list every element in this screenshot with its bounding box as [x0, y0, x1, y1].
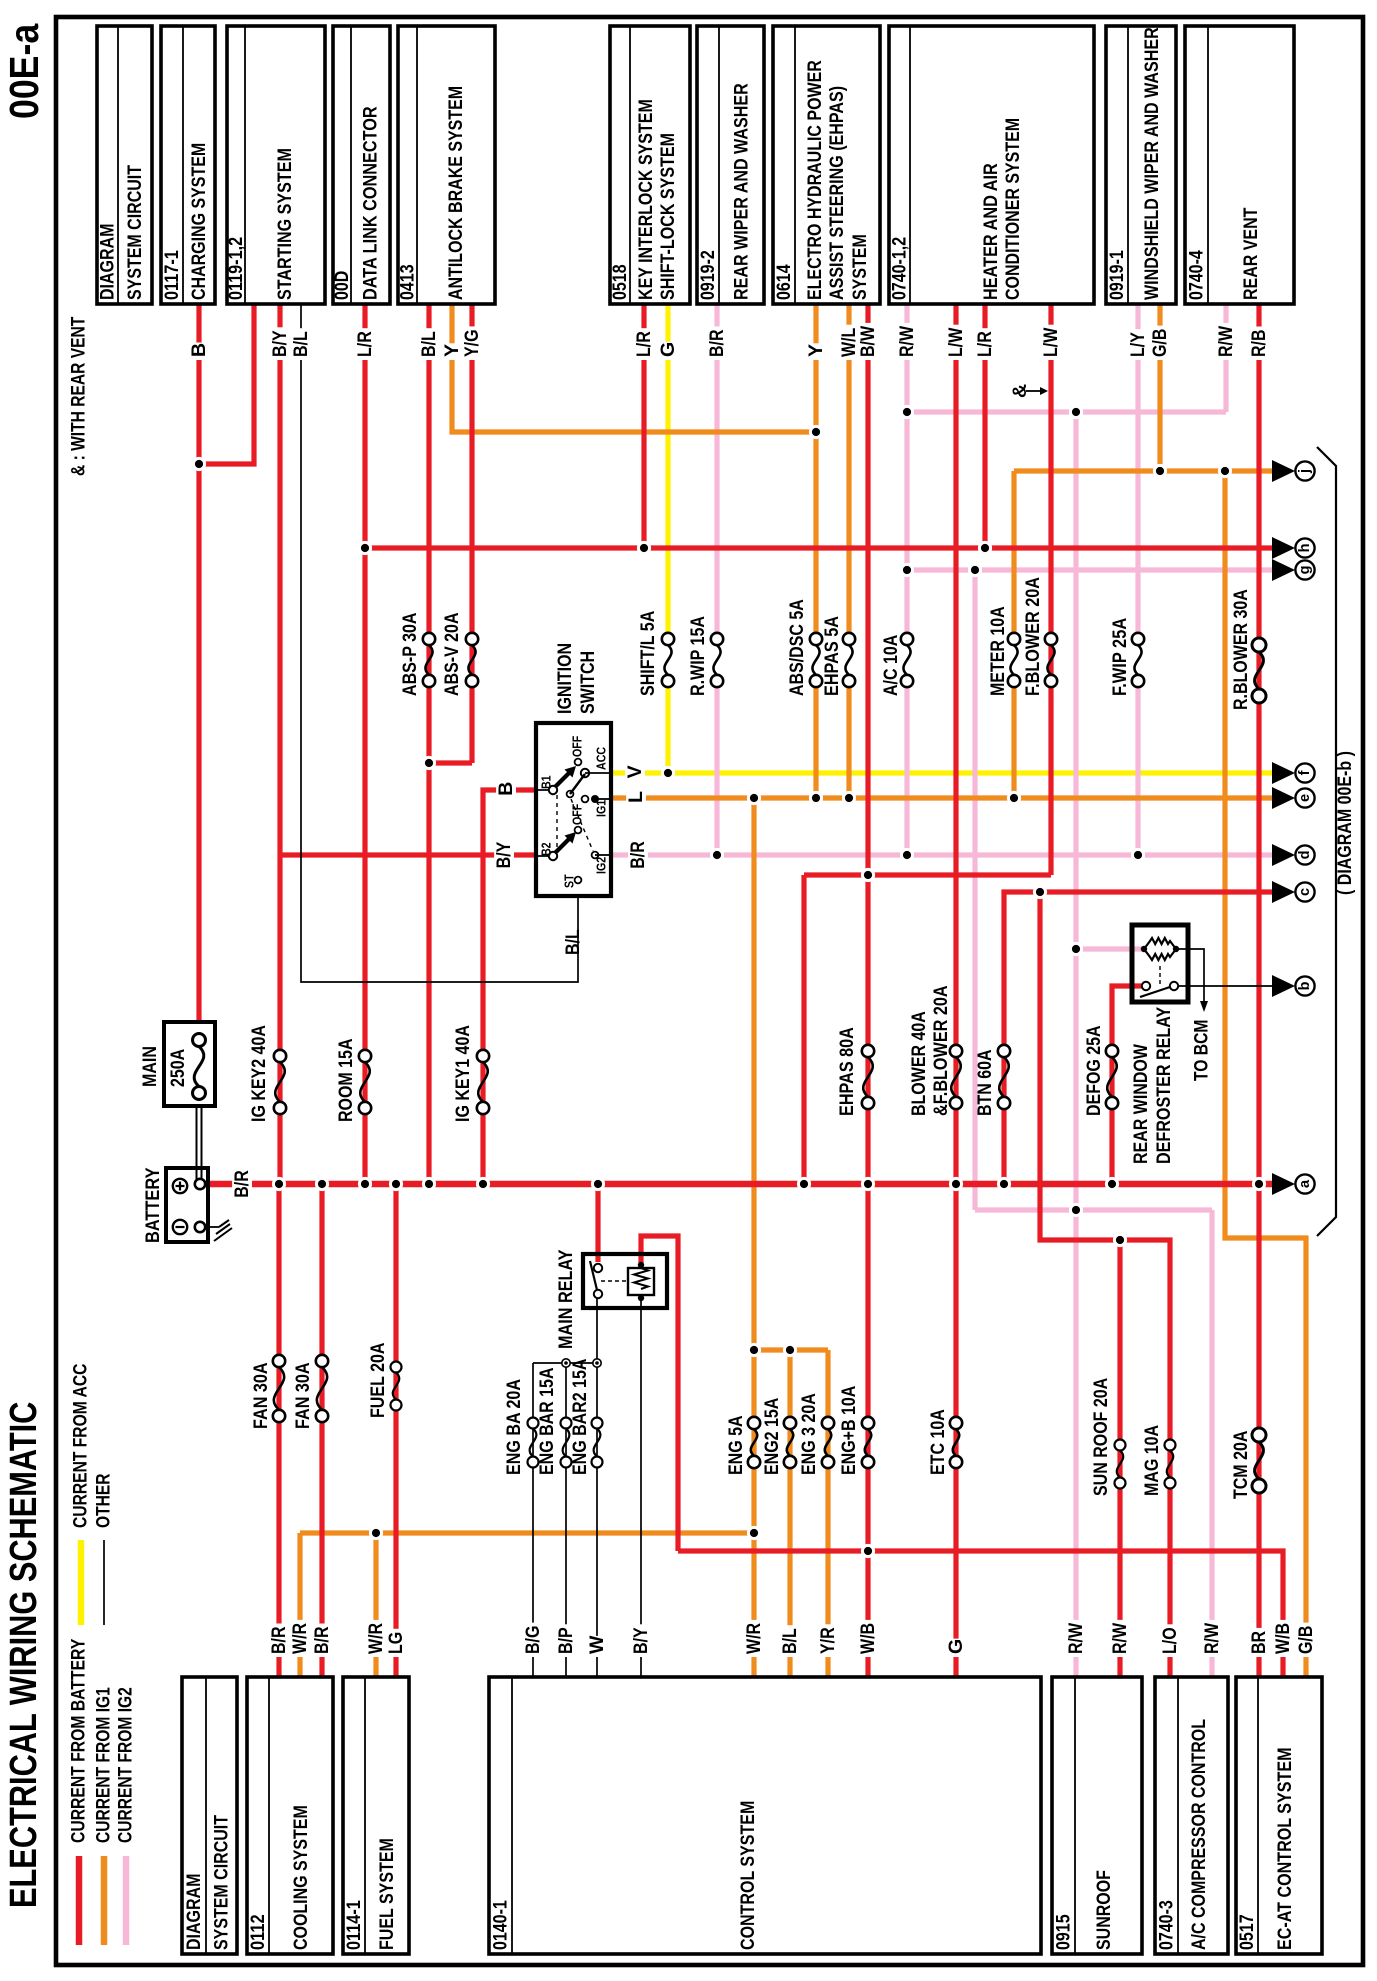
wire L/Y pink from 0919-1: [1135, 304, 1140, 633]
svg-text:ENG BAR 15A: ENG BAR 15A: [536, 1368, 558, 1476]
wire main red h-line to arrow h: [365, 545, 1272, 550]
svg-text:0614: 0614: [773, 264, 795, 300]
connector arrow a: [1272, 1173, 1295, 1195]
svg-text:CHARGING SYSTEM: CHARGING SYSTEM: [188, 143, 210, 300]
svg-text:SYSTEM: SYSTEM: [849, 234, 871, 300]
junction bus at ABS: [422, 1177, 436, 1191]
label wire B/Y relay: [631, 1624, 652, 1657]
svg-text:g: g: [1297, 566, 1313, 575]
svg-text:A/C COMPRESSOR CONTROL: A/C COMPRESSOR CONTROL: [1188, 1719, 1210, 1950]
label wire R/W sunroof red: [1110, 1620, 1131, 1657]
wire TCM fuse lead to EC-AT: [1256, 1184, 1261, 1677]
fuse ETC 10A: [950, 1417, 962, 1429]
svg-text:FUEL SYSTEM: FUEL SYSTEM: [376, 1838, 398, 1950]
wire B/R pink from 0919-2: [714, 304, 719, 633]
label wire W: [587, 1636, 608, 1657]
svg-text:Y: Y: [805, 344, 827, 357]
fuse ENG BA 20A: [528, 1418, 539, 1429]
battery minus terminal: [195, 1222, 205, 1232]
svg-text:W/R: W/R: [289, 1623, 311, 1654]
label wire L/R 0518: [634, 328, 655, 360]
label wire W/B: [858, 1620, 879, 1657]
wire Y orange from 0413: [452, 304, 816, 432]
wire pink net at y412: [907, 409, 1226, 414]
junction bus at L/R ROOM: [358, 1177, 372, 1191]
svg-text:IG1: IG1: [594, 800, 609, 817]
svg-text:B2: B2: [539, 842, 554, 856]
wire Y orange below ABS/DSC fuse: [813, 687, 818, 798]
label wire G/B: [1150, 326, 1171, 360]
svg-text:0919-2: 0919-2: [697, 250, 719, 300]
svg-text:G/B: G/B: [1295, 1626, 1317, 1654]
fuse ABS-V 20A: [466, 633, 478, 645]
wire B/R pink below R.WIP fuse: [714, 687, 719, 855]
junction W/R fuel branch: [369, 1526, 383, 1540]
svg-text:ELECTRICAL WIRING SCHEMATIC: ELECTRICAL WIRING SCHEMATIC: [3, 1402, 45, 1908]
wire B/R IG2 line to arrow d: [611, 852, 1272, 857]
svg-text:0114-1: 0114-1: [343, 1900, 365, 1950]
svg-text:EHPAS 5A: EHPAS 5A: [821, 616, 843, 696]
arrowhead TO BCM: [1200, 1001, 1208, 1012]
wire L/W blower feed from 0740-1,2: [953, 304, 958, 1184]
svg-text:L/Y: L/Y: [1127, 332, 1149, 357]
svg-text:b: b: [1297, 981, 1313, 990]
system box 0740-4 REAR VENT: [1185, 26, 1294, 304]
wire IG KEY1 feed to ignition switch B1: [483, 790, 536, 1184]
svg-text:EC-AT CONTROL SYSTEM: EC-AT CONTROL SYSTEM: [1274, 1748, 1296, 1951]
svg-text:FUEL 20A: FUEL 20A: [367, 1343, 389, 1419]
ignition switch B1 contact: [549, 786, 557, 794]
wire R/W pink from 0740-4: [1223, 304, 1228, 412]
wire METER feed orange: [1011, 471, 1016, 633]
svg-text:CONTROL SYSTEM: CONTROL SYSTEM: [737, 1801, 759, 1950]
fuse FAN 30A no1: [273, 1355, 285, 1367]
fuse ENG+B 10A: [862, 1417, 874, 1429]
wire Y orange from 0614: [813, 304, 818, 633]
system box 0915 SUNROOF: [1052, 1677, 1142, 1954]
system box 0112 COOLING SYSTEM: [247, 1677, 333, 1954]
wire ABS join y763: [429, 760, 472, 765]
svg-text:B/Y: B/Y: [269, 330, 291, 357]
wire defroster coil TO BCM: [1176, 949, 1204, 1003]
svg-text:STARTING SYSTEM: STARTING SYSTEM: [274, 148, 296, 300]
svg-text:SHIFT/L 5A: SHIFT/L 5A: [637, 611, 659, 696]
label wire B/Y ignition: [494, 839, 514, 872]
junction engine bar at W: [593, 1359, 601, 1367]
label wire W/L: [839, 325, 860, 360]
legend swatch ACC yellow: [78, 1540, 85, 1625]
svg-text:Y: Y: [441, 344, 463, 357]
svg-text:TCM 20A: TCM 20A: [1230, 1431, 1252, 1499]
legend swatch battery red: [76, 1856, 83, 1945]
svg-text:DATA LINK CONNECTOR: DATA LINK CONNECTOR: [360, 106, 382, 300]
svg-text:( DIAGRAM 00E-b ): ( DIAGRAM 00E-b ): [1334, 751, 1356, 895]
svg-text:B: B: [495, 782, 517, 796]
ignition switch IG1 contact: [582, 796, 589, 803]
connector arrow b: [1272, 975, 1295, 997]
fuse IG KEY2 40A: [274, 1050, 286, 1062]
system box 0413 ANTILOCK BRAKE SYSTEM: [398, 26, 495, 304]
wire R/W pink sunroof feed: [1073, 412, 1078, 1677]
junction pink y412 at sunroof drop: [1069, 405, 1083, 419]
label wire L/R: [355, 328, 376, 360]
label wire W/R control: [744, 1620, 765, 1657]
battery: [166, 1168, 208, 1242]
junction h-line at L/R 0518: [637, 541, 651, 555]
svg-text:OTHER: OTHER: [94, 1473, 115, 1528]
junction h-line at L/R 00D: [358, 541, 372, 555]
fuse TCM 20A: [1252, 1428, 1266, 1442]
svg-text:R.WIP 15A: R.WIP 15A: [687, 616, 709, 696]
svg-text:OFF: OFF: [570, 804, 585, 825]
svg-text:SUN ROOF 20A: SUN ROOF 20A: [1090, 1378, 1112, 1496]
wire METER fuse lower lead: [1011, 687, 1016, 798]
system box 0614 EHPAS: [773, 26, 880, 304]
wire main relay coil feed: [641, 1236, 678, 1551]
junction L at ABS/DSC: [809, 791, 823, 805]
svg-text:ANTILOCK BRAKE SYSTEM: ANTILOCK BRAKE SYSTEM: [445, 86, 467, 300]
ignition switch ST contact: [575, 877, 582, 884]
svg-text:0112: 0112: [247, 1914, 269, 1950]
svg-text:ENG BAR2 15A: ENG BAR2 15A: [569, 1359, 591, 1475]
svg-text:R/W: R/W: [1065, 1622, 1087, 1654]
wire DEFOG feed to defroster relay: [1112, 986, 1142, 1184]
wire W/R orange into control box: [751, 1533, 756, 1677]
wire bus drop x804: [801, 875, 806, 1184]
svg-text:SYSTEM CIRCUIT: SYSTEM CIRCUIT: [124, 165, 146, 300]
svg-text:ACC: ACC: [594, 746, 609, 770]
label wire B/Y: [270, 327, 291, 360]
fuse DEFOG 25A: [1106, 1045, 1118, 1057]
connector arrow f: [1272, 762, 1295, 784]
svg-text:ST: ST: [562, 874, 577, 888]
main relay dashed link: [601, 1280, 626, 1282]
svg-text:SWITCH: SWITCH: [577, 651, 599, 714]
junction L at EHPAS 5A: [842, 791, 856, 805]
wire Y/G from 0413 through ABS-V fuse: [469, 304, 474, 763]
system box 00D DATA LINK CONNECTOR: [333, 26, 390, 304]
svg-text:IG2: IG2: [594, 857, 609, 874]
svg-text:0119-1,2: 0119-1,2: [225, 237, 247, 300]
svg-text:d: d: [1297, 851, 1313, 860]
fuse SUN ROOF 20A: [1115, 1440, 1126, 1451]
svg-text:MAG 10A: MAG 10A: [1141, 1425, 1163, 1496]
wire orange IG1 drop to engine fuses: [751, 798, 756, 1533]
svg-text:0517: 0517: [1236, 1914, 1258, 1950]
wire SUN ROOF fuse lead: [1117, 1240, 1122, 1677]
label wire G control: [946, 1639, 967, 1657]
junction B charging/starting: [192, 457, 206, 471]
wire L/Y pink below F.WIP fuse: [1135, 687, 1140, 855]
label wire W/R fuel: [366, 1620, 387, 1657]
wire ETC feed G: [953, 1184, 958, 1677]
svg-text:DEFROSTER RELAY: DEFROSTER RELAY: [1153, 1007, 1175, 1164]
label wire B/W: [858, 323, 879, 360]
ignition switch link mid-ACC: [570, 774, 585, 794]
svg-text:R/W: R/W: [1215, 325, 1237, 357]
svg-text:R/W: R/W: [1109, 1622, 1131, 1654]
wire R/W pink into A/C compressor box: [1209, 1210, 1214, 1677]
junction bus at x804: [797, 1177, 811, 1191]
junction bus at main relay: [591, 1177, 605, 1191]
label wire B/R bus: [232, 1167, 252, 1201]
junction bus at FUEL: [389, 1177, 403, 1191]
wire ENG BAR 15A lead B/P: [565, 1363, 567, 1677]
svg-text:0117-1: 0117-1: [161, 250, 183, 300]
svg-text:EHPAS 80A: EHPAS 80A: [836, 1027, 858, 1116]
svg-text:G/B: G/B: [1149, 329, 1171, 357]
wire L/R from 0518: [641, 304, 646, 548]
fuse A/C 10A: [901, 633, 913, 645]
svg-text:B: B: [188, 343, 210, 357]
wire pink drop to A/C compressor: [972, 570, 977, 1210]
fuse EHPAS 5A: [843, 633, 855, 645]
ignition switch OFF2 position: [575, 827, 582, 834]
defroster relay dashed link: [1159, 966, 1161, 984]
svg-text:B/P: B/P: [555, 1627, 577, 1654]
junction ABS lines join: [422, 756, 436, 770]
label wire L/R 0740: [975, 328, 996, 360]
wire L IG1 line to arrow e: [611, 795, 1272, 800]
connector arrow e: [1272, 787, 1295, 809]
wire c-line drop to sunroof/mag fuses: [1040, 892, 1170, 1677]
rear window defroster relay box: [1132, 925, 1188, 1002]
main relay switch contacts: [594, 1264, 602, 1272]
svg-text:W/R: W/R: [743, 1623, 765, 1654]
svg-text:B/W: B/W: [857, 325, 879, 357]
svg-text:ABS-P 30A: ABS-P 30A: [399, 613, 421, 697]
svg-text:IG KEY1 40A: IG KEY1 40A: [452, 1025, 474, 1122]
label wire B/P: [556, 1624, 577, 1657]
wire ENG+B feed: [865, 1184, 870, 1677]
defroster relay switch contacts: [1142, 982, 1150, 990]
svg-text:F.WIP 25A: F.WIP 25A: [1109, 618, 1131, 696]
ground lead: [205, 1226, 219, 1228]
ignition switch mid contact: [567, 791, 574, 798]
wire ENG 3 20A lead: [825, 1350, 830, 1677]
junction bus at BTN: [997, 1177, 1011, 1191]
fuse R.WIP 15A: [711, 633, 723, 645]
svg-text:0518: 0518: [609, 264, 631, 300]
system box 0114-1 FUEL SYSTEM: [343, 1677, 409, 1954]
fuse F.WIP 25A: [1132, 633, 1144, 645]
fuse ENG BAR 15A: [561, 1418, 572, 1429]
wire R/W pink from 0740-1,2: [904, 304, 909, 633]
wire FUEL 20A feed: [393, 1184, 398, 1677]
label wire R/B: [1249, 327, 1270, 361]
junction bus at EHPAS/ENG+B: [861, 1177, 875, 1191]
ignition switch B2 lead: [536, 855, 553, 857]
svg-text:B/G: B/G: [522, 1626, 544, 1654]
label wire R/W ac: [1202, 1620, 1223, 1657]
fuse ABS/DSC 5A: [810, 633, 822, 645]
junction bus at B/Y FAN: [272, 1177, 286, 1191]
ignition switch wiper B2: [556, 839, 570, 853]
svg-text:R/W: R/W: [896, 325, 918, 357]
svg-text:B/R: B/R: [231, 1170, 253, 1198]
svg-text:BLOWER 40A: BLOWER 40A: [908, 1011, 930, 1116]
junction bus at FAN2: [315, 1177, 329, 1191]
main relay box: [583, 1254, 667, 1308]
svg-text:0740-3: 0740-3: [1156, 1900, 1178, 1950]
ignition switch B2 contact: [549, 852, 557, 860]
svg-text:BR: BR: [1248, 1631, 1270, 1654]
svg-text:R.BLOWER 30A: R.BLOWER 30A: [1230, 589, 1252, 710]
wire W/R orange into cooling box: [297, 1533, 302, 1677]
svg-text:A/C 10A: A/C 10A: [880, 635, 902, 696]
defroster relay coil terminals: [1141, 946, 1147, 952]
label wire B/G: [523, 1623, 544, 1657]
svg-text:B/R: B/R: [311, 1627, 333, 1655]
system box 0740-1,2 HEATER: [889, 26, 1094, 304]
fuse METER 10A: [1008, 633, 1020, 645]
junction Y 0413 to Y 0614: [809, 425, 823, 439]
label wire Y: [442, 343, 463, 360]
svg-text:CURRENT FROM ACC: CURRENT FROM ACC: [71, 1363, 92, 1528]
wire main relay coil output B/Y: [640, 1300, 642, 1677]
wire relay output to EC-AT W/B: [678, 1551, 1283, 1677]
label wire B: [189, 343, 210, 361]
svg-text:R/W: R/W: [1201, 1622, 1223, 1654]
junction bus at DEFOG: [1105, 1177, 1119, 1191]
junction j-line at G/B: [1153, 464, 1167, 478]
wire W/R orange branch y1533: [300, 1530, 754, 1535]
wire L/W from 0740-1,2 through F.BLOWER fuse: [1048, 304, 1053, 875]
svg-text:ABS/DSC 5A: ABS/DSC 5A: [786, 599, 808, 696]
system box 0140-1 CONTROL SYSTEM: [489, 1677, 1041, 1954]
connector arrow c: [1272, 881, 1295, 903]
svg-text:CURRENT FROM IG2: CURRENT FROM IG2: [116, 1687, 137, 1843]
label wire L: [626, 790, 646, 806]
ignition switch dashed linkage: [556, 795, 558, 851]
connector arrow j: [1272, 460, 1295, 482]
label wire Y/R: [818, 1624, 839, 1657]
svg-text:CONDITIONER SYSTEM: CONDITIONER SYSTEM: [1002, 118, 1024, 300]
fuse R.BLOWER 30A: [1252, 638, 1266, 652]
svg-text:IGNITION: IGNITION: [554, 643, 576, 714]
svg-text:ELECTRO HYDRAULIC POWER: ELECTRO HYDRAULIC POWER: [804, 60, 826, 300]
label wire R/W sunroof pink: [1066, 1620, 1087, 1657]
svg-text:ASSIST STEERING (EHPAS): ASSIST STEERING (EHPAS): [826, 86, 848, 300]
svg-text:FAN 30A: FAN 30A: [292, 1362, 314, 1429]
svg-text:DIAGRAM: DIAGRAM: [183, 1874, 205, 1950]
svg-text:SHIFT-LOCK SYSTEM: SHIFT-LOCK SYSTEM: [657, 133, 679, 300]
ignition switch wiper B1: [556, 773, 570, 787]
wire EHPAS 80A leg to bus: [865, 875, 870, 1184]
defroster relay blade: [1140, 987, 1170, 997]
battery bus B/R: [201, 1181, 1272, 1188]
junction pink y1210: [1069, 1203, 1083, 1217]
label wire W/B ecat: [1273, 1620, 1294, 1657]
junction g-line at pink drop: [968, 563, 982, 577]
ignition switch ACC contact: [581, 769, 589, 777]
wire defroster relay to arrow b: [1176, 985, 1272, 987]
junction j-line at orange drop: [1218, 464, 1232, 478]
label wire B/R cooling2: [312, 1624, 333, 1658]
wire V ACC line to arrow f: [611, 770, 1272, 775]
svg-text:f: f: [1297, 770, 1313, 775]
svg-text:REAR VENT: REAR VENT: [1240, 208, 1262, 300]
junction h-line at L/R 0740-1,2: [978, 541, 992, 555]
svg-text:B/L: B/L: [418, 331, 440, 357]
label wire G: [658, 342, 679, 360]
svg-text:B/R: B/R: [268, 1627, 290, 1655]
system box 0119-1,2 STARTING SYSTEM: [227, 26, 325, 304]
junction sunroof drop: [1113, 1233, 1127, 1247]
fuse ABS-P 30A: [423, 633, 435, 645]
svg-text:00D: 00D: [331, 271, 353, 300]
fuse FAN 30A no2: [316, 1355, 328, 1367]
junction ENG2 branch: [783, 1343, 797, 1357]
svg-text:IG KEY2 40A: IG KEY2 40A: [248, 1025, 270, 1122]
label wire B ignition: [496, 781, 516, 799]
label wire L/Y: [1128, 329, 1149, 360]
label wire BR: [1249, 1628, 1270, 1657]
svg-text:REAR WINDOW: REAR WINDOW: [1130, 1044, 1152, 1164]
svg-text:TO BCM: TO BCM: [1192, 1020, 1213, 1081]
main relay coil terminals: [638, 1262, 644, 1268]
junction g-line left: [900, 563, 914, 577]
svg-text:B/L: B/L: [562, 929, 584, 955]
junction bus at blower/ETC: [949, 1177, 963, 1191]
svg-text:B/R: B/R: [627, 841, 649, 869]
svg-text:WINDSHIELD WIPER AND WASHER: WINDSHIELD WIPER AND WASHER: [1141, 27, 1163, 300]
svg-text:0413: 0413: [397, 264, 419, 300]
system box 0117-1 CHARGING SYSTEM: [161, 26, 215, 304]
svg-text:B1: B1: [539, 775, 554, 789]
ignition switch box: [536, 723, 611, 896]
svg-text:j: j: [1297, 469, 1313, 474]
fuse MAIN 250A: [193, 1034, 206, 1047]
svg-text:&F.BLOWER 20A: &F.BLOWER 20A: [930, 985, 952, 1116]
label wire R/W 0740-4: [1216, 323, 1237, 360]
junction W/R branch: [747, 1526, 761, 1540]
fuse ENG 3 20A: [822, 1417, 834, 1429]
ground: [214, 1220, 232, 1241]
svg-text:CURRENT FROM BATTERY: CURRENT FROM BATTERY: [69, 1638, 90, 1843]
svg-text:R/B: R/B: [1248, 330, 1270, 358]
svg-text:B/L: B/L: [779, 1628, 801, 1654]
svg-text:0740-4: 0740-4: [1186, 250, 1208, 300]
fuse IG KEY1 40A: [477, 1050, 489, 1062]
label wire B/L 0413: [419, 328, 440, 360]
svg-text:HEATER AND AIR: HEATER AND AIR: [980, 163, 1002, 300]
legend swatch OTHER black: [103, 1540, 105, 1625]
wire G yellow from 0518: [665, 304, 670, 633]
wire pink horizontal y1210: [975, 1207, 1212, 1212]
svg-text:DIAGRAM: DIAGRAM: [97, 224, 119, 300]
svg-text:MAIN: MAIN: [139, 1046, 161, 1087]
junction L at orange drop: [747, 791, 761, 805]
junction bus at IG KEY1: [476, 1177, 490, 1191]
svg-text:ABS-V 20A: ABS-V 20A: [441, 613, 463, 697]
junction B/R at F.WIP: [1131, 848, 1145, 862]
system box 0919-2 REAR WIPER AND WASHER: [697, 26, 764, 304]
label wire B/R ig2: [628, 838, 648, 872]
junction orange at ENG branch: [747, 1343, 761, 1357]
label wire W/R cooling: [290, 1620, 311, 1657]
svg-text:KEY INTERLOCK SYSTEM: KEY INTERLOCK SYSTEM: [635, 99, 657, 300]
system box DIAGRAM / SYSTEM CIRCUIT (top): [97, 26, 152, 304]
wire R/B from 0740-4 rear vent: [1256, 304, 1261, 1184]
svg-text:B/R: B/R: [706, 330, 728, 358]
junction bus at R.BLOWER/TCM: [1252, 1177, 1266, 1191]
svg-text:Y/R: Y/R: [817, 1627, 839, 1654]
wire L/R from 0740-1,2: [982, 304, 987, 548]
svg-text:W/B: W/B: [857, 1623, 879, 1654]
ignition switch B1 lead: [536, 789, 553, 791]
wire B from charging system: [196, 304, 201, 1022]
